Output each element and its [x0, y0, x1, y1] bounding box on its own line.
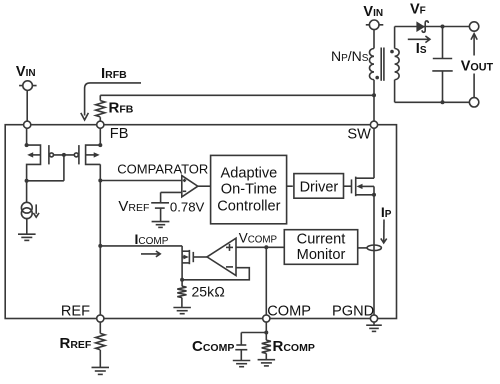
wire Q1 drain to current source: [26, 181, 28, 203]
resistor 25k: [177, 280, 186, 308]
svg-text:COMP: COMP: [267, 304, 311, 320]
node Q1 drain: [25, 179, 29, 183]
transistor Q3 (power NMOS): [352, 177, 375, 197]
gate bar Q1: [49, 145, 54, 164]
node PGND: [370, 315, 377, 322]
transistor Q1 (left PMOS of mirror): [25, 128, 41, 181]
wire ICOMP: [100, 246, 182, 280]
terminal VOUT bottom: [469, 98, 478, 107]
svg-text:Monitor: Monitor: [297, 247, 346, 263]
arrow IRFB: [81, 83, 141, 120]
node primary-RFB junction: [372, 93, 376, 97]
wire comparator + input: [100, 180, 182, 182]
label SW: [347, 127, 371, 143]
svg-text:VOUT: VOUT: [461, 58, 494, 74]
label PGND: [332, 304, 374, 320]
label VCOMP: [239, 230, 278, 245]
arrow IP: [381, 220, 387, 243]
battery VREF 0.78V: [151, 203, 169, 222]
ground (RREF): [92, 367, 110, 374]
arrow IS: [408, 36, 430, 43]
wire op-amp - feedback: [182, 268, 249, 280]
wire to CCOMP: [241, 333, 266, 346]
node Q3 source: [372, 193, 376, 197]
resistor RCOMP: [262, 340, 271, 359]
svg-text:Adaptive: Adaptive: [221, 165, 278, 181]
wire secondary top: [394, 27, 396, 49]
op-amp U2: [207, 238, 236, 275]
label ICOMP: [135, 231, 169, 247]
capacitor CCOMP: [235, 345, 247, 360]
resistor RFB: [96, 95, 105, 121]
node feedback junction: [180, 278, 184, 282]
VIN terminal (left): [19, 81, 36, 91]
node comparator input tap: [98, 179, 102, 183]
wire driver to gate: [343, 185, 352, 187]
node VIN on rail: [24, 121, 31, 128]
wire VCOMP to COMP: [265, 247, 267, 315]
wire secondary bottom: [395, 80, 470, 103]
ground (current source): [18, 234, 36, 240]
node COMP: [263, 315, 270, 322]
wire COMP down: [265, 322, 267, 340]
wire SW to Q3 drain: [373, 128, 375, 178]
node comp branch: [264, 331, 268, 335]
node VCOMP: [264, 245, 268, 249]
wire monitor to sensor: [358, 247, 368, 249]
gate bar Q2: [74, 145, 79, 164]
block Adaptive On-Time Controller: [211, 155, 287, 223]
transformer T1 secondary: [395, 49, 400, 80]
svg-text:REF: REF: [61, 304, 90, 320]
label 25k: [192, 284, 226, 300]
wire gate tie: [27, 155, 75, 181]
resistor RREF: [96, 322, 105, 367]
transistor Q2 (right PMOS of mirror): [86, 143, 103, 164]
ground (PGND): [366, 322, 382, 332]
svg-text:PGND: PGND: [332, 304, 374, 320]
label IS: [416, 41, 427, 57]
arrow VOUT: [471, 34, 477, 98]
current source I1: [21, 202, 39, 218]
svg-text:On-Time: On-Time: [221, 182, 277, 198]
ground (VREF): [152, 222, 170, 228]
wire Q3 source to sensor: [373, 195, 375, 315]
block Driver: [294, 174, 344, 199]
current sensor ellipse: [367, 245, 381, 251]
wire current source to ground: [26, 219, 28, 234]
VIN terminal (top right): [366, 20, 384, 30]
diode D1 (Schottky): [416, 21, 428, 32]
label RREF: [60, 335, 92, 352]
terminal VOUT top: [469, 22, 478, 31]
wire controller to driver: [286, 185, 293, 187]
transformer core: [381, 48, 384, 81]
wire VIN to primary: [373, 30, 375, 49]
node FB: [97, 121, 104, 128]
label REF: [61, 304, 90, 320]
label CCOMP: [192, 338, 234, 355]
node cap bottom junction: [441, 100, 445, 104]
wire op-amp + input to monitor: [236, 246, 284, 248]
label VIN (left): [16, 64, 36, 80]
label VIN (top right): [363, 4, 383, 20]
label FB: [110, 126, 129, 142]
wire comparator - input: [161, 192, 182, 202]
arrow ICOMP: [141, 251, 160, 257]
label RFB: [109, 100, 134, 117]
wire comparator out: [198, 185, 210, 187]
capacitor COUT: [432, 27, 452, 103]
IC boundary box: [5, 125, 396, 319]
node gate tie: [62, 153, 66, 157]
label IRFB: [101, 65, 127, 82]
phase dot primary: [375, 76, 379, 80]
label 0.78V: [170, 200, 205, 215]
label VREF: [118, 198, 149, 215]
node diode-cap junction: [441, 25, 445, 29]
block Current Monitor: [284, 230, 357, 265]
ground (25k): [173, 308, 191, 314]
svg-text:FB: FB: [110, 126, 129, 142]
label COMP: [267, 304, 311, 320]
label VOUT: [461, 58, 494, 74]
wire FB column: [99, 128, 101, 315]
node SW: [370, 121, 377, 128]
node REF: [97, 315, 104, 322]
svg-text:SW: SW: [347, 127, 371, 143]
svg-text:Driver: Driver: [300, 179, 339, 195]
svg-text:Current: Current: [297, 231, 346, 247]
node ICOMP tap: [98, 244, 102, 248]
wire primary bottom: [373, 80, 375, 122]
svg-text:25kΩ: 25kΩ: [192, 284, 226, 300]
label RCOMP: [273, 338, 315, 355]
ground (CCOMP): [233, 361, 251, 367]
svg-text:0.78V: 0.78V: [170, 200, 205, 215]
phase dot secondary: [390, 50, 394, 54]
transistor Q4 (buffer NMOS): [182, 250, 207, 264]
svg-text:Controller: Controller: [217, 198, 280, 214]
label Np/Ns: [331, 48, 369, 64]
svg-text:COMPARATOR: COMPARATOR: [117, 161, 208, 176]
wire VIN to rail: [26, 90, 28, 121]
ground (RCOMP): [258, 360, 276, 366]
wire RFB top line to transformer: [100, 94, 374, 96]
label COMPARATOR: [117, 161, 208, 176]
transformer T1 primary: [370, 49, 375, 80]
wire diode line: [395, 26, 470, 28]
comparator U1: [182, 176, 198, 197]
label VF: [410, 2, 426, 18]
label IP: [381, 204, 392, 220]
